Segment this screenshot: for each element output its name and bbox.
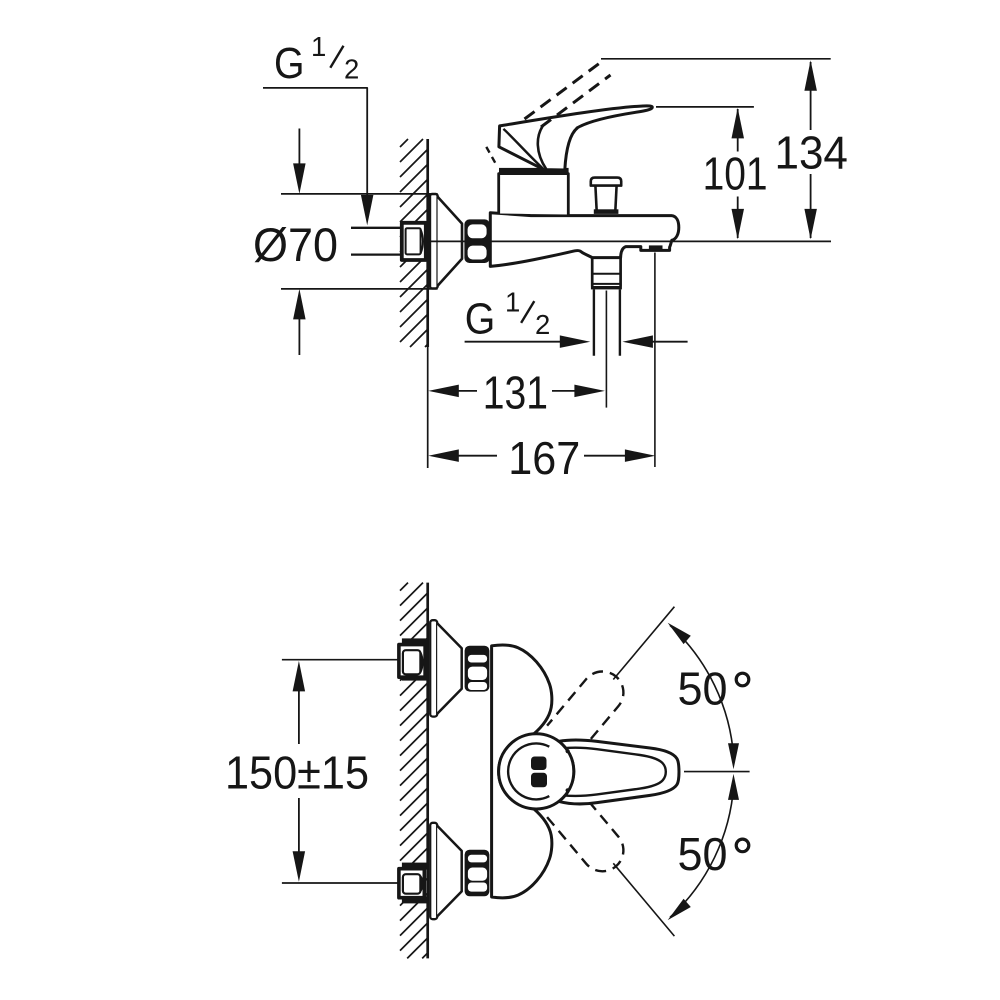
cartridge housing — [499, 174, 569, 215]
supply pipe behind wall — [351, 228, 402, 255]
svg-text:150±15: 150±15 — [225, 747, 369, 799]
hose centerline extension — [605, 291, 607, 408]
cartridge cap dark band — [499, 168, 569, 174]
lower square fitting — [399, 869, 424, 898]
dim 134 — [601, 58, 831, 60]
svg-text:G: G — [465, 294, 496, 343]
aerator slots — [649, 245, 663, 250]
dim 131 — [457, 390, 477, 392]
handle inner S-curve — [538, 125, 546, 169]
upper escutcheon plate — [430, 620, 437, 716]
handle dome curve — [503, 129, 543, 169]
handle lever (side view) — [499, 106, 652, 170]
dim 150±15 — [298, 688, 300, 855]
dim line G1/2 middle — [465, 341, 563, 343]
dashed handle raised 50deg — [547, 671, 623, 752]
dim 101 — [656, 106, 754, 108]
dashed raised handle position (side view) — [525, 60, 611, 128]
wall surface line (front view) — [426, 583, 429, 959]
shower outlet cylinder — [592, 258, 620, 287]
svg-text:134: 134 — [774, 126, 848, 178]
centerline / axis extension — [428, 240, 831, 242]
escutcheon cone (top view) — [438, 197, 462, 286]
faucet body (side view) — [490, 213, 679, 267]
svg-text:2: 2 — [535, 309, 550, 340]
upper square fitting — [399, 645, 425, 678]
wall surface line (top view) — [426, 139, 429, 347]
dim 167 — [457, 455, 497, 457]
svg-text:1: 1 — [505, 286, 520, 317]
dashed handle lowered 50deg — [547, 790, 623, 871]
svg-text:2: 2 — [344, 54, 359, 85]
svg-text:50: 50 — [678, 662, 728, 714]
escutcheon flange plate (top view) — [430, 194, 438, 288]
svg-text:131: 131 — [483, 366, 548, 418]
leader for G1/2 top — [263, 88, 367, 197]
knob dark mark — [531, 757, 547, 771]
svg-text:1: 1 — [311, 31, 326, 62]
body front outline — [492, 645, 552, 898]
knob cap circle — [499, 734, 574, 809]
spout outlet extension line — [654, 253, 656, 468]
wall hatching (top view) — [400, 139, 428, 347]
knob inner arc — [508, 743, 549, 799]
dashed lowered-handle ghost arc — [486, 147, 497, 167]
150 dim extension lines / axes — [282, 660, 399, 883]
lever inner contour — [552, 748, 666, 796]
lower escutcheon plate — [430, 823, 437, 919]
lower union collar — [402, 863, 427, 870]
shower hose stub — [594, 289, 620, 355]
svg-text:167: 167 — [508, 432, 580, 484]
svg-text:G: G — [274, 39, 305, 88]
wall hatching (front view) — [400, 583, 428, 959]
svg-text:Ø70: Ø70 — [253, 218, 338, 271]
handle lever (front view, horizontal) — [559, 740, 679, 804]
lower hex nut — [465, 850, 490, 897]
connection hex nut (top view) — [464, 219, 489, 263]
upper escutcheon cone — [437, 623, 462, 714]
angle dim rays and arcs — [684, 771, 750, 773]
svg-text:101: 101 — [703, 147, 768, 199]
upper union collar — [402, 638, 427, 645]
wall union square fitting (top view) — [402, 223, 426, 260]
upper hex nut — [465, 646, 490, 692]
lower escutcheon cone — [437, 826, 462, 917]
diverter knob — [591, 178, 621, 186]
svg-text:50: 50 — [678, 828, 728, 880]
